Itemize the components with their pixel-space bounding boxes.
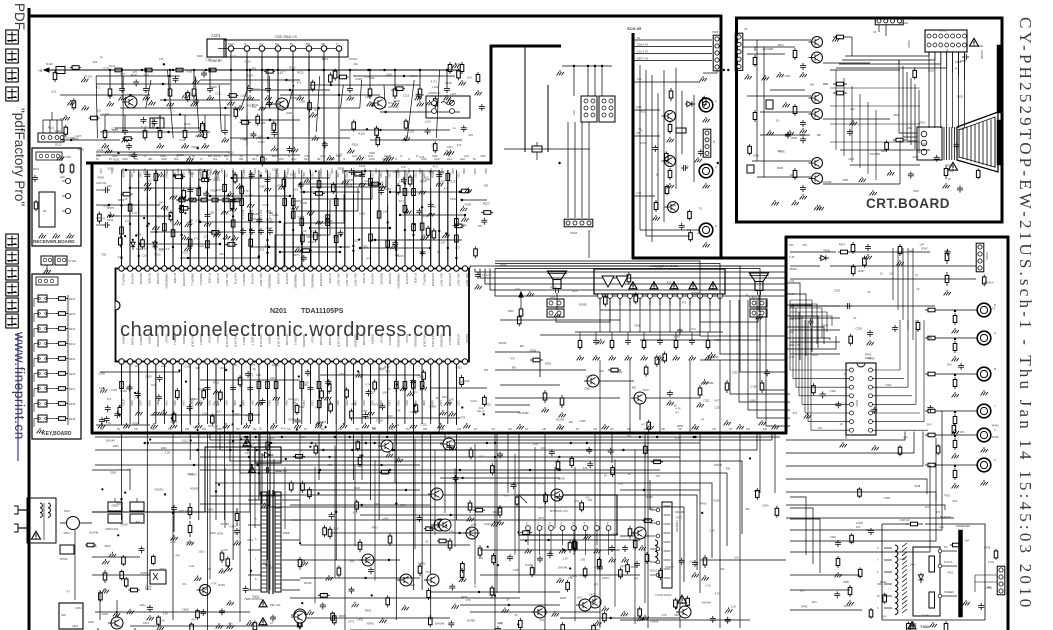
- svg-text:B5V: B5V: [224, 155, 229, 158]
- svg-text:V631: V631: [315, 406, 322, 410]
- svg-text:1N4148: 1N4148: [493, 510, 503, 514]
- resistor: [189, 236, 191, 239]
- svg-text:C612: C612: [277, 184, 284, 188]
- ground: [275, 395, 277, 397]
- wire: [267, 70, 269, 86]
- wire: [455, 170, 457, 266]
- svg-text:R234: R234: [69, 343, 76, 346]
- svg-text:C438: C438: [922, 614, 929, 618]
- CRT green amp transistor V903: [812, 93, 823, 104]
- svg-text:10U: 10U: [477, 224, 482, 228]
- svg-text:VD601-604: VD601-604: [105, 527, 119, 531]
- IF area extra fill 2: [65, 125, 67, 128]
- wire: [327, 364, 329, 424]
- capacitor: [438, 172, 440, 175]
- resistor: [655, 200, 657, 203]
- svg-text:470: 470: [793, 411, 798, 415]
- svg-text:473: 473: [434, 487, 439, 491]
- wire: [327, 170, 329, 266]
- IF wires 3: [96, 75, 180, 77]
- wire pin 12 down: [215, 364, 217, 432]
- wire pin 24 down: [318, 364, 320, 420]
- svg-text:47K: 47K: [175, 554, 180, 558]
- wire: [292, 364, 294, 424]
- svg-text:2SC: 2SC: [907, 126, 912, 130]
- bottom band wires 2: [290, 504, 430, 506]
- svg-text:473: 473: [301, 455, 306, 459]
- svg-text:L201: L201: [156, 172, 159, 178]
- svg-text:R237: R237: [69, 388, 76, 391]
- svg-text:R408: R408: [301, 201, 308, 205]
- svg-text:R425: R425: [525, 563, 532, 567]
- key switch SW206: [38, 370, 47, 377]
- zener VD104: [532, 146, 542, 152]
- resistor: [370, 231, 372, 234]
- wire: [172, 170, 174, 266]
- svg-text:C682: C682: [584, 387, 591, 391]
- svg-text:R615: R615: [265, 564, 272, 568]
- IF extra grounds 2: [70, 100, 72, 102]
- svg-text:C609: C609: [182, 607, 189, 611]
- svg-text:2SC2482: 2SC2482: [763, 47, 774, 51]
- svg-text:R208: R208: [268, 172, 271, 178]
- svg-text:C-IN: C-IN: [789, 255, 794, 259]
- svg-text:VD635: VD635: [345, 178, 354, 182]
- ground: [224, 209, 226, 211]
- svg-text:HT: HT: [100, 427, 104, 431]
- svg-text:GND: GND: [432, 155, 438, 158]
- svg-text:104: 104: [362, 409, 367, 413]
- wire pin 32 up: [387, 225, 389, 266]
- svg-text:C417: C417: [689, 560, 696, 564]
- svg-text:473: 473: [353, 511, 358, 515]
- svg-text:C318: C318: [319, 420, 326, 424]
- svg-text:HT: HT: [525, 427, 529, 431]
- svg-text:R575: R575: [108, 206, 115, 210]
- svg-text:EW: EW: [569, 420, 574, 424]
- right band top components: [852, 242, 854, 245]
- wire: [370, 188, 372, 266]
- svg-text:473: 473: [359, 453, 364, 457]
- svg-text:R425: R425: [218, 583, 225, 587]
- ground below comb IC: [842, 442, 844, 444]
- svg-text:104: 104: [691, 327, 696, 331]
- svg-text:AFC-OUT: AFC-OUT: [336, 334, 340, 347]
- svg-text:330: 330: [745, 507, 750, 511]
- resistor: [56, 313, 59, 315]
- svg-text:CRT.BOARD: CRT.BOARD: [866, 196, 950, 211]
- wire: [258, 170, 260, 266]
- svg-text:V606: V606: [500, 263, 507, 267]
- svg-text:R509: R509: [98, 175, 105, 179]
- svg-text:SP1: SP1: [550, 295, 556, 299]
- svg-text:4.7: 4.7: [67, 589, 71, 593]
- svg-text:2KV: 2KV: [927, 423, 932, 427]
- IF area extra density: [54, 70, 56, 73]
- svg-text:1K: 1K: [323, 591, 326, 595]
- AV wire AUD: [634, 109, 660, 111]
- wire: [224, 170, 226, 266]
- ground: [215, 169, 217, 171]
- receiver grounds: [41, 233, 43, 235]
- svg-text:222: 222: [260, 248, 265, 252]
- svg-text:1u: 1u: [158, 114, 161, 118]
- svg-text:C617: C617: [143, 621, 150, 625]
- T601 right pin wires: [282, 499, 300, 501]
- svg-text:U/V: U/V: [259, 42, 264, 46]
- resistor: [387, 237, 389, 240]
- resistor: [56, 358, 59, 360]
- svg-text:V351: V351: [268, 400, 271, 406]
- wire loop: [786, 432, 905, 441]
- svg-text:T402: T402: [944, 494, 951, 498]
- wire pin 31 down: [378, 364, 380, 420]
- svg-text:AGC: AGC: [464, 155, 470, 158]
- svg-text:VD580: VD580: [578, 303, 587, 307]
- svg-text:C358: C358: [216, 400, 219, 406]
- svg-text:VOUT-B: VOUT-B: [130, 273, 134, 284]
- wire pin 2 down: [129, 364, 131, 400]
- svg-text:C211: C211: [250, 172, 253, 178]
- capacitor: [232, 197, 234, 200]
- wire: [361, 170, 363, 266]
- svg-text:2KV: 2KV: [800, 589, 805, 593]
- wire: [181, 364, 183, 424]
- extra junction dots: [675, 607, 677, 609]
- AV out jack 2: [699, 164, 713, 178]
- svg-text:1N4148: 1N4148: [89, 531, 99, 535]
- svg-text:2.2K: 2.2K: [731, 605, 737, 609]
- right-of-IC density 3: [711, 352, 713, 354]
- snubber cap: [236, 508, 238, 514]
- svg-text:STALN8: STALN8: [362, 334, 366, 345]
- wire: [335, 432, 337, 560]
- svg-text:R423: R423: [485, 522, 492, 526]
- svg-text:1K: 1K: [697, 231, 700, 235]
- svg-text:SCL-OUT: SCL-OUT: [225, 273, 229, 286]
- resistor: [56, 403, 59, 405]
- svg-text:471: 471: [218, 58, 223, 62]
- frame top border: [28, 15, 722, 18]
- svg-text:1K: 1K: [352, 361, 355, 365]
- nested L wires from bottom to jacks: [790, 497, 806, 555]
- left margin CJK chars wen jian shi yong: [6, 30, 18, 44]
- svg-text:5V: 5V: [219, 427, 223, 431]
- svg-text:2.2K: 2.2K: [333, 526, 339, 530]
- key switch SW202: [38, 310, 47, 317]
- svg-text:VD605: VD605: [140, 571, 149, 575]
- svg-text:2KV: 2KV: [989, 280, 994, 284]
- capacitor: [361, 172, 363, 175]
- svg-text:R119: R119: [418, 168, 421, 174]
- wire: [284, 170, 286, 266]
- svg-text:C222: C222: [456, 172, 459, 178]
- svg-text:C208: C208: [285, 172, 288, 178]
- wire: [301, 170, 303, 266]
- svg-text:C302: C302: [139, 400, 142, 406]
- svg-text:C254: C254: [187, 168, 190, 174]
- svg-text:C554: C554: [762, 504, 769, 508]
- ferrite bead L101: [56, 67, 65, 74]
- svg-text:C108: C108: [393, 99, 400, 103]
- wire: [378, 364, 380, 424]
- right band extra fill 2: [850, 334, 852, 337]
- svg-text:R347: R347: [812, 353, 819, 357]
- svg-text:222: 222: [294, 187, 299, 191]
- wire: [292, 195, 294, 266]
- svg-text:47K: 47K: [127, 468, 132, 472]
- wire loop: [495, 261, 786, 336]
- svg-text:103: 103: [300, 435, 305, 439]
- CRT second bar: [997, 120, 1001, 165]
- svg-text:1K: 1K: [477, 409, 480, 413]
- wire: [370, 432, 372, 500]
- wire pin 27 up: [344, 185, 346, 266]
- svg-text:223: 223: [353, 62, 358, 66]
- svg-text:V323: V323: [173, 400, 176, 406]
- CRT grounds bottom: [852, 120, 854, 122]
- wire pin 8 up: [181, 200, 183, 266]
- CRT heater cap: [962, 56, 965, 58]
- svg-text:473: 473: [498, 622, 503, 626]
- S-correction caps: [611, 545, 613, 548]
- jack C: [977, 428, 991, 442]
- T601 secondary winding ladder: [275, 492, 281, 592]
- svg-text:R615: R615: [116, 625, 123, 629]
- svg-text:330: 330: [581, 557, 586, 561]
- svg-text:V358: V358: [422, 400, 425, 406]
- resistor: [301, 378, 303, 382]
- ground: [267, 95, 269, 97]
- wire: [430, 364, 432, 424]
- junction: [180, 174, 182, 176]
- svg-text:IF-VID0: IF-VID0: [148, 273, 152, 284]
- wire pin 37 up: [430, 200, 432, 266]
- right section top edge: [785, 236, 1009, 239]
- svg-text:V901: V901: [913, 189, 920, 193]
- svg-text:C204: C204: [448, 172, 451, 178]
- CRT right thick bar: [997, 45, 1001, 113]
- svg-text:470: 470: [511, 357, 516, 361]
- ground below XS05: [702, 76, 704, 78]
- svg-text:KR: KR: [746, 427, 750, 431]
- wire: [344, 364, 346, 424]
- wire: [267, 432, 269, 560]
- svg-text:R108: R108: [473, 168, 476, 174]
- svg-text:R141: R141: [252, 103, 259, 107]
- wire: [292, 170, 294, 266]
- svg-text:470: 470: [903, 435, 908, 439]
- wire pin 11 down: [206, 364, 208, 410]
- wire: [155, 170, 157, 266]
- speaker SP1 wires: [556, 293, 558, 310]
- AV board left edge: [632, 33, 635, 259]
- svg-text:1u: 1u: [453, 126, 456, 130]
- IF transistor PH1: [374, 97, 386, 109]
- left margin CJK chars shi yong ban ben chuang jian: [6, 234, 18, 248]
- ground: [138, 410, 140, 412]
- junction: [421, 206, 423, 208]
- svg-text:EWOUT: EWOUT: [388, 334, 392, 345]
- svg-text:KR: KR: [202, 427, 206, 431]
- svg-text:330: 330: [249, 193, 254, 197]
- svg-text:473: 473: [568, 576, 573, 580]
- svg-text:C408: C408: [634, 324, 641, 328]
- wire loop 5: [260, 433, 697, 570]
- svg-text:AGC: AGC: [228, 42, 234, 46]
- svg-text:R340: R340: [431, 400, 434, 406]
- svg-text:C121: C121: [215, 92, 222, 96]
- svg-text:2.2K: 2.2K: [202, 412, 208, 416]
- svg-text:220u: 220u: [170, 539, 176, 543]
- svg-text:0.01: 0.01: [144, 73, 150, 77]
- svg-text:V305: V305: [674, 335, 681, 339]
- svg-text:R239: R239: [69, 418, 76, 421]
- wire: [155, 364, 157, 424]
- CRT tube gun box: [917, 127, 942, 160]
- CRT socket drop wires: [928, 52, 930, 128]
- wire pin 33 down: [395, 364, 397, 432]
- AC plug prongs: [18, 509, 27, 511]
- flyback tap circles: [938, 549, 942, 553]
- resistor: [267, 378, 269, 382]
- wire: [395, 188, 397, 266]
- wire: [181, 172, 183, 266]
- AV board bottom edge: [632, 257, 787, 260]
- wire pin 39 down: [447, 364, 449, 400]
- resistor before jack: [925, 373, 928, 375]
- svg-text:HOUT/FB: HOUT/FB: [182, 273, 186, 286]
- wire: [198, 178, 200, 266]
- svg-text:103: 103: [449, 439, 454, 443]
- svg-text:R118: R118: [46, 62, 53, 66]
- svg-text:5V: 5V: [473, 158, 476, 161]
- sound IC N601 box: [594, 269, 725, 294]
- svg-text:SY102: SY102: [63, 155, 71, 159]
- wire pin 37 down: [430, 364, 432, 420]
- svg-text:103: 103: [193, 425, 198, 429]
- svg-text:C905: C905: [842, 178, 849, 182]
- svg-text:1K: 1K: [853, 316, 856, 320]
- svg-text:SND/PLL: SND/PLL: [199, 273, 203, 286]
- wire: [215, 205, 217, 266]
- svg-text:R215: R215: [214, 178, 221, 182]
- comb filter IC N302: [846, 363, 876, 435]
- resistor: [56, 373, 59, 375]
- svg-text:VD203 5.6: VD203 5.6: [158, 248, 170, 251]
- optocoupler N602: [150, 570, 166, 584]
- svg-text:T402: T402: [920, 624, 930, 629]
- wire: [258, 432, 260, 500]
- svg-text:C905: C905: [791, 136, 798, 140]
- svg-text:VD: VD: [134, 427, 138, 431]
- wire: [301, 364, 303, 424]
- svg-text:330: 330: [674, 613, 679, 617]
- IF bus horizontal resistors: [112, 69, 115, 71]
- warning triangle: [908, 622, 916, 629]
- svg-text:R254: R254: [110, 168, 113, 174]
- CRT bias resistor: [893, 139, 896, 141]
- svg-text:V306: V306: [233, 400, 236, 406]
- wire pin 2 up: [129, 175, 131, 266]
- wire: [249, 170, 251, 266]
- svg-text:R: R: [994, 303, 996, 307]
- svg-text:PH2LF: PH2LF: [311, 334, 315, 344]
- wire: [215, 364, 217, 424]
- svg-text:R317: R317: [190, 400, 193, 406]
- capacitor: [189, 187, 191, 190]
- comb filter left pin wires: [790, 369, 850, 371]
- AV input wires top: [634, 39, 712, 41]
- wire: [241, 170, 243, 266]
- svg-text:C115: C115: [418, 93, 425, 97]
- wire: [121, 70, 123, 86]
- svg-text:470: 470: [457, 143, 462, 147]
- svg-text:AVL/SW: AVL/SW: [276, 273, 280, 284]
- svg-text:R133: R133: [85, 74, 92, 78]
- warning triangle: [678, 595, 687, 603]
- svg-text:47U: 47U: [399, 199, 404, 203]
- svg-text:C446: C446: [830, 536, 836, 539]
- ground: [446, 95, 448, 97]
- wire: [163, 170, 165, 266]
- svg-text:1K: 1K: [425, 539, 428, 543]
- svg-text:C2 4.7U: C2 4.7U: [482, 273, 492, 277]
- wire: [163, 364, 165, 424]
- svg-text:C512: C512: [640, 141, 647, 145]
- junction: [387, 221, 389, 223]
- diode VD501: [685, 103, 687, 105]
- wire pin 7 up: [172, 200, 174, 266]
- svg-text:4700P: 4700P: [856, 522, 863, 525]
- wire loop: [495, 266, 786, 372]
- svg-text:R215: R215: [154, 253, 161, 257]
- svg-text:SND/PLL: SND/PLL: [242, 273, 246, 286]
- jack wires y306: [790, 305, 935, 307]
- right band wires top: [790, 251, 836, 253]
- svg-text:R431: R431: [275, 469, 282, 473]
- T601 left pin wires: [248, 499, 261, 501]
- wire: [189, 364, 191, 424]
- svg-text:1N4148: 1N4148: [558, 566, 568, 570]
- svg-text:AB: AB: [440, 427, 444, 431]
- svg-text:XS05: XS05: [712, 30, 719, 34]
- resistor to ground: [954, 438, 956, 441]
- wire loop: [495, 264, 786, 355]
- svg-text:220u: 220u: [247, 538, 253, 542]
- wire: [739, 300, 790, 402]
- svg-text:IF: IF: [244, 42, 247, 46]
- svg-text:R347: R347: [822, 324, 829, 328]
- wire: [318, 170, 320, 266]
- wire pin 12 up: [215, 175, 217, 266]
- svg-text:V305: V305: [579, 419, 586, 423]
- svg-text:C322: C322: [484, 403, 491, 407]
- svg-text:5V: 5V: [135, 158, 138, 161]
- svg-text:C371: C371: [99, 386, 106, 390]
- svg-text:REF 1/2S: REF 1/2S: [270, 604, 281, 607]
- deflection horizontal wires: [290, 519, 650, 521]
- svg-text:AFC-OUT: AFC-OUT: [190, 334, 194, 347]
- svg-text:EW: EW: [512, 365, 517, 369]
- svg-text:47U: 47U: [194, 237, 199, 241]
- svg-text:STALN8: STALN8: [319, 334, 323, 345]
- svg-text:R342: R342: [393, 387, 400, 391]
- tuner A101 box: [207, 39, 226, 57]
- svg-text:2KV: 2KV: [856, 526, 861, 529]
- svg-text:RT601: RT601: [60, 557, 68, 561]
- svg-text:R462: R462: [631, 565, 638, 569]
